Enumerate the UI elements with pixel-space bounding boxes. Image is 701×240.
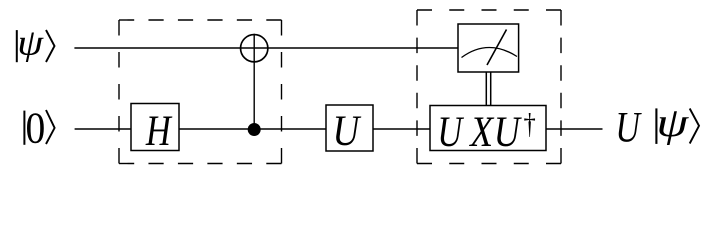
output label U|psi> — [615, 100, 699, 151]
wire top qubit — [74, 47, 458, 49]
qubit label |0> (bottom input ket) — [24, 105, 54, 153]
CNOT target on top qubit — [241, 35, 268, 62]
svg-text:H: H — [145, 107, 172, 154]
CNOT control dot on bottom qubit — [248, 123, 261, 136]
svg-text:U: U — [494, 108, 522, 156]
svg-text:†: † — [524, 107, 536, 140]
svg-text:0: 0 — [26, 105, 46, 153]
svg-text:U: U — [615, 104, 642, 152]
gate H — [131, 104, 179, 155]
gate U X U-dagger (correction) — [430, 106, 546, 156]
classical double wire (meter to correction gate) — [486, 72, 490, 106]
svg-text:X: X — [468, 108, 494, 156]
svg-text:ψ: ψ — [656, 100, 689, 145]
dashed box 1 (entangling stage) — [119, 20, 282, 164]
svg-text:ψ: ψ — [17, 24, 44, 63]
svg-text:U: U — [333, 106, 363, 154]
qubit label |psi> (top input ket) — [17, 24, 55, 63]
wire vertical CNOT — [253, 34, 255, 130]
meter (measurement symbol) — [458, 24, 519, 72]
svg-text:U: U — [437, 108, 464, 155]
wire bottom qubit — [75, 128, 603, 130]
dashed box 2 (measurement + correction stage) — [417, 10, 561, 164]
gate U — [326, 105, 373, 154]
